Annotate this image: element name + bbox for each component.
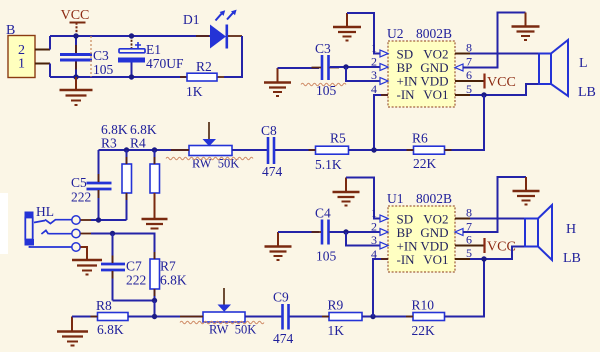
U1 pin 6 stub [455, 245, 485, 247]
jack contact 3 [72, 243, 80, 251]
wavy underline RW bottom [180, 321, 264, 323]
ground left of R8 [57, 317, 88, 346]
svg-text:1: 1 [371, 41, 377, 55]
LED D1 pin stubs [196, 35, 242, 37]
wire R10 to pin5 riser [445, 259, 485, 317]
wire top rail [50, 35, 210, 37]
junction at C3/U2 [343, 64, 348, 69]
wire pin5 to speaker H [470, 247, 525, 260]
jack contact 1 [72, 216, 80, 224]
wire C3 to U2 pin2 [330, 66, 380, 68]
svg-text:C4: C4 [315, 206, 331, 221]
ground at jack [72, 260, 102, 275]
junction bottom rail at E1 [129, 74, 134, 79]
power VCC top-left [61, 8, 90, 36]
svg-text:2: 2 [371, 220, 377, 234]
svg-text:C3: C3 [315, 41, 331, 56]
svg-text:R10: R10 [412, 298, 435, 313]
wavy underline under 105 [301, 83, 346, 85]
wire C9 to R9 [290, 316, 330, 318]
pin stubs RW1/C8 [171, 149, 283, 151]
svg-text:222: 222 [71, 190, 91, 205]
pin stubs RW2/C9 [180, 316, 298, 318]
wire ground to C4 [278, 231, 319, 233]
capacitor C9 [273, 290, 294, 347]
capacitor C3 mid pin stubs [312, 67, 340, 69]
ground right of U2 (pin7) [512, 13, 540, 41]
wire bottom rail [50, 76, 187, 78]
capacitor C8 [261, 123, 283, 179]
svg-text:E1: E1 [146, 42, 161, 57]
U1 pin 8 stub [455, 218, 470, 220]
resistor R8 [96, 298, 128, 337]
junction R4 top [152, 147, 157, 152]
svg-text:R5: R5 [330, 131, 346, 146]
svg-text:6: 6 [466, 68, 472, 82]
capacitor C5 [71, 150, 112, 220]
ground left of C3 top-middle [264, 68, 291, 96]
svg-text:R9: R9 [328, 298, 344, 313]
svg-text:105: 105 [93, 62, 114, 77]
wire pin2 to top rail [49, 36, 51, 50]
svg-text:LB: LB [578, 85, 596, 100]
svg-text:R8: R8 [96, 298, 112, 313]
svg-text:B: B [6, 23, 15, 38]
junction top rail at E1 [129, 33, 134, 38]
headphone jack HL [25, 204, 55, 246]
svg-text:U2: U2 [387, 26, 404, 41]
jack tip switch [34, 220, 72, 224]
jack ring switch [41, 230, 71, 234]
svg-text:LB: LB [563, 251, 581, 266]
svg-text:R4: R4 [130, 136, 146, 151]
svg-text:1: 1 [18, 57, 25, 72]
svg-text:6.8K: 6.8K [160, 273, 187, 288]
svg-text:7: 7 [466, 55, 472, 69]
junction top rail at C3 [73, 33, 78, 38]
svg-text:-IN: -IN [397, 87, 416, 102]
U2 pin 6 stub [455, 80, 485, 82]
wire contact3 to ground [81, 247, 88, 260]
resistor R9 [328, 298, 363, 339]
pin stubs R8 [91, 316, 136, 318]
wire pin8 to speaker H [470, 218, 525, 220]
wire U2 pin4 down to R5/R6 junction [374, 95, 388, 150]
pin stubs R5 [309, 149, 356, 151]
wire pin1 to bottom rail [49, 64, 51, 78]
svg-text:U1: U1 [387, 191, 404, 206]
capacitor C7 [101, 234, 146, 301]
svg-text:H: H [566, 222, 576, 237]
ground left of C4 [265, 232, 292, 260]
U1 pin 7 arrow [455, 229, 463, 236]
svg-text:8002B: 8002B [416, 26, 452, 41]
pin stubs R3 R4 C5 [99, 157, 155, 200]
U1 pin 3 arrow [380, 242, 388, 249]
connector B [6, 23, 35, 78]
junction mid row [371, 147, 376, 152]
wire RW2 to C9 [245, 316, 283, 318]
U2 pin 5 stub [455, 94, 470, 96]
potentiometer RW (top) [189, 122, 239, 171]
svg-text:474: 474 [262, 164, 283, 179]
junction at C4/U1 [343, 229, 348, 234]
wavy underline RW top [166, 157, 253, 159]
wire pin8 to speaker L [470, 53, 539, 55]
connector B pin 1 [35, 63, 50, 65]
svg-text:HL: HL [36, 204, 54, 219]
wire contact2 row [91, 234, 155, 260]
svg-text:D1: D1 [183, 12, 200, 27]
svg-text:8: 8 [466, 206, 472, 220]
U2 pin 1 arrow [380, 50, 388, 57]
pin stubs R10 [406, 316, 452, 318]
svg-text:L: L [579, 56, 588, 71]
junction pin5 feedback U1 [481, 256, 486, 261]
svg-text:5: 5 [466, 82, 472, 96]
jack contact1 pin stub [81, 219, 93, 221]
svg-text:1K: 1K [328, 323, 345, 338]
capacitor C3 pin stubs [76, 45, 224, 77]
pin stubs R6 [407, 149, 452, 151]
wire ground to C3 mid [278, 67, 320, 69]
U2 pin 4 stub [381, 94, 388, 96]
U2 pin 7 arrow [455, 64, 463, 71]
wire R5 to R6 [349, 149, 414, 151]
capacitor C3 (middle) [315, 41, 337, 98]
connector B pin 2 [35, 49, 50, 51]
wire C7 to R7 bottom [113, 300, 155, 302]
resistor R3 [122, 150, 132, 220]
svg-text:22K: 22K [413, 156, 437, 171]
ground above U1 (pin1) [333, 178, 360, 206]
junction bottom row at R7 [152, 314, 157, 319]
ground under C3 [60, 77, 93, 105]
dotted selection line [90, 36, 92, 77]
white patch left edge [0, 193, 8, 254]
power VCC at U1 pin6 [485, 238, 516, 255]
pin stubs C7 R7 [113, 252, 155, 296]
op-amp IC U1 8002B [387, 191, 455, 272]
svg-text:R3: R3 [101, 136, 117, 151]
wire U1 pin4 down to R9/R10 junction [373, 259, 388, 317]
svg-text:6: 6 [466, 233, 472, 247]
wire C8 to R5 [275, 149, 315, 151]
svg-text:8: 8 [466, 41, 472, 55]
svg-text:C9: C9 [273, 290, 289, 305]
capacitor C4 pin stubs [312, 231, 340, 233]
svg-text:RW 50K: RW 50K [209, 323, 256, 337]
wire mid row left [99, 149, 190, 151]
svg-text:105: 105 [316, 249, 337, 264]
svg-text:470UF: 470UF [146, 56, 184, 71]
wire R7 junction down [154, 301, 156, 317]
resistor R5 [315, 131, 349, 173]
svg-text:C3: C3 [93, 48, 109, 63]
svg-text:R2: R2 [196, 59, 212, 74]
wire C4 to U1 pin2 [330, 231, 380, 233]
svg-text:1K: 1K [186, 84, 203, 99]
LED D1 [183, 10, 237, 49]
resistor R2 [186, 59, 217, 99]
wire pin5 to speaker L [470, 84, 539, 95]
junction pin5 feedback [481, 92, 486, 97]
wire junction down to pin3 [346, 67, 380, 81]
wire pin7 up to ground [463, 13, 526, 68]
svg-text:C7: C7 [126, 259, 142, 274]
op-amp IC U2 8002B [387, 26, 455, 107]
svg-text:1: 1 [371, 206, 377, 220]
svg-text:VO1: VO1 [423, 252, 448, 267]
U1 pin 4 stub [381, 258, 388, 260]
capacitor C3 (left) [60, 36, 114, 77]
capacitor C4 [315, 206, 337, 264]
ground right of U1 (pin7) [513, 177, 540, 205]
resistor R10 [412, 298, 445, 339]
svg-text:C8: C8 [261, 123, 277, 138]
junction bottom rail at C3 [73, 74, 78, 79]
speaker L [539, 40, 568, 96]
junction bottom row U1 pin4 [370, 314, 375, 319]
svg-text:5: 5 [466, 246, 472, 260]
junction R7 bottom [152, 298, 157, 303]
wire pin7 up to ground [463, 177, 526, 232]
resistor R4 [150, 150, 160, 193]
junction R3 top [124, 147, 129, 152]
svg-text:474: 474 [273, 331, 294, 346]
wire LED to R2 [224, 36, 242, 77]
svg-text:4: 4 [371, 82, 377, 96]
svg-text:R6: R6 [412, 131, 428, 146]
junction C7 top [110, 231, 115, 236]
wire ground to R8 [72, 316, 98, 318]
jack contact2 pin stub [81, 233, 93, 235]
wire R8 to RW2 [128, 316, 203, 318]
ground above U2 (pin1) [333, 13, 361, 41]
U2 pin 2 arrow [380, 64, 388, 71]
svg-text:3: 3 [371, 68, 377, 82]
wire ground to U1 pin1 [346, 178, 380, 219]
wire ground to U2 pin1 [347, 13, 380, 54]
ground under R4 [142, 193, 168, 229]
wire contact1 row [91, 219, 127, 221]
U2 pin 8 stub [455, 53, 470, 55]
electrolytic capacitor E1 [118, 36, 184, 77]
svg-text:8002B: 8002B [416, 191, 452, 206]
svg-text:22K: 22K [412, 323, 436, 338]
svg-text:3: 3 [371, 233, 377, 247]
svg-text:-IN: -IN [397, 252, 416, 267]
resistor R7 [150, 259, 187, 301]
U1 pin 1 arrow [380, 215, 388, 222]
wire R9 to R10 [362, 316, 413, 318]
pin stubs R9 [322, 316, 369, 318]
junction C5 bottom [96, 217, 101, 222]
U2 pin 3 arrow [380, 78, 388, 85]
jack contact 2 [72, 229, 80, 237]
speaker H [525, 205, 552, 260]
wire junction down to U1 pin3 [346, 232, 380, 246]
svg-text:2: 2 [371, 55, 377, 69]
svg-text:R7: R7 [160, 259, 176, 274]
svg-text:VO1: VO1 [423, 87, 448, 102]
svg-text:222: 222 [126, 273, 146, 288]
wire jack sleeve to contact3 [30, 246, 72, 247]
svg-text:5.1K: 5.1K [315, 157, 342, 172]
svg-text:VCC: VCC [61, 8, 90, 23]
power VCC at U2 pin6 [485, 74, 516, 91]
U1 pin 5 stub [455, 258, 470, 260]
svg-text:C5: C5 [71, 175, 87, 190]
U1 pin 2 arrow [380, 229, 388, 236]
wire RW to C8 [232, 149, 268, 151]
potentiometer RW (bottom) [203, 288, 256, 337]
wire pin5 junction down to R6 [445, 95, 485, 150]
resistor R6 [412, 131, 445, 172]
svg-text:VCC: VCC [487, 75, 516, 90]
svg-text:6.8K: 6.8K [97, 322, 124, 337]
